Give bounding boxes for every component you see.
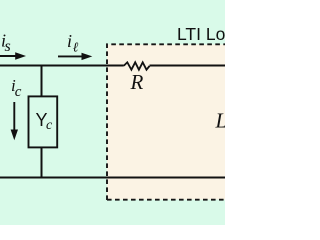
- svg-text:i: i: [67, 31, 72, 51]
- wire top right: [150, 65, 226, 67]
- svg-text:R: R: [130, 70, 144, 94]
- svg-text:c: c: [15, 84, 22, 100]
- current arrow i_l: [58, 55, 82, 57]
- wire vertical branch upper: [41, 65, 43, 98]
- wire vertical branch lower: [41, 147, 43, 179]
- current arrow i_s: [0, 55, 17, 57]
- svg-text:s: s: [5, 38, 11, 55]
- wire top horizontal left: [0, 65, 124, 67]
- svg-text:ℓ: ℓ: [73, 40, 79, 55]
- LTI load dashed border: [107, 44, 226, 200]
- svg-text:LTI Load: LTI Load: [177, 24, 225, 44]
- resistor R: [124, 62, 150, 69]
- admittance box Yc: [29, 96, 58, 147]
- svg-text:c: c: [46, 118, 53, 133]
- current arrow i_c (down): [13, 102, 15, 130]
- wire bottom horizontal: [0, 177, 225, 179]
- LTI load region (cream fill): [107, 45, 226, 200]
- svg-text:L: L: [215, 109, 226, 133]
